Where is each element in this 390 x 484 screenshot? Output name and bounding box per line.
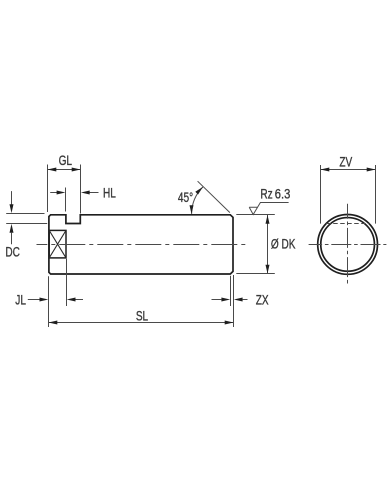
svg-text:GL: GL (59, 152, 73, 168)
svg-text:Rz: Rz (260, 186, 272, 202)
svg-text:Ø DK: Ø DK (271, 236, 296, 252)
svg-text:ZV: ZV (339, 154, 353, 170)
svg-text:ZX: ZX (256, 292, 269, 308)
svg-text:6.3: 6.3 (275, 186, 291, 201)
svg-text:DC: DC (5, 244, 20, 260)
svg-text:JL: JL (15, 292, 26, 308)
svg-text:HL: HL (103, 185, 116, 201)
svg-text:45°: 45° (178, 189, 193, 205)
svg-text:SL: SL (136, 308, 149, 324)
